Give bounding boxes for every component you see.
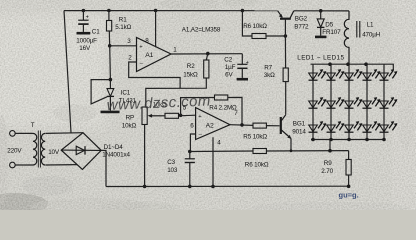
resistor R2 <box>146 54 209 107</box>
svg-text:R7: R7 <box>264 64 272 71</box>
capacitor C1 <box>76 9 100 52</box>
wire A2 pin 4 to ground <box>211 137 215 188</box>
svg-text:RP: RP <box>126 115 134 122</box>
wire A2 pin 6 <box>190 134 195 152</box>
op-amp A2 <box>183 105 239 147</box>
svg-text:R1: R1 <box>119 16 127 23</box>
wire A1 pin 8 to rail <box>154 9 158 48</box>
LED6 <box>309 97 327 108</box>
node cathode bus taps <box>311 138 386 142</box>
svg-text:D1~D4: D1~D4 <box>104 144 124 151</box>
op-amp A1 <box>127 38 177 72</box>
svg-text:gu=g.: gu=g. <box>339 191 359 200</box>
diode D5 FR107 <box>315 9 341 37</box>
wire ground rail <box>106 185 350 187</box>
wire LED column 2 <box>330 64 332 139</box>
terminal 220V bottom <box>10 162 16 168</box>
svg-text:220V: 220V <box>7 147 22 154</box>
LED12 <box>327 121 345 132</box>
capacitor C3 <box>167 152 195 189</box>
node R8 / BG2 base / R7 <box>284 34 288 38</box>
svg-text:FR107: FR107 <box>322 29 341 36</box>
resistor R3 <box>153 103 196 119</box>
wire LED column 3 <box>348 64 350 139</box>
svg-text:C1: C1 <box>92 29 100 36</box>
inductor L1 <box>344 11 380 64</box>
wire bridge output to ground rail <box>101 150 106 186</box>
wire A1 pin 2 feedback <box>129 62 180 88</box>
LED7 <box>327 97 345 108</box>
svg-text:1000µF: 1000µF <box>76 37 97 44</box>
svg-text:R5 10kΩ: R5 10kΩ <box>243 134 267 141</box>
node R1/TL431/pin3 junction <box>108 44 112 48</box>
svg-text:R6 10kΩ: R6 10kΩ <box>245 162 269 169</box>
svg-text:BG2: BG2 <box>295 16 308 23</box>
wire left vertical from rail to bridge <box>64 11 71 133</box>
node RP bottom on ground rail <box>143 185 147 189</box>
svg-text:15kΩ: 15kΩ <box>183 72 198 79</box>
transistor BG2 B772 <box>278 11 309 36</box>
svg-text:R4 2.2MΩ: R4 2.2MΩ <box>209 105 237 112</box>
LED2 <box>327 69 345 80</box>
wire cathode bus to sense line <box>328 140 332 153</box>
shunt reference IC1 TL431 <box>91 46 136 112</box>
wire top +V rail (left of BG2) <box>64 10 278 12</box>
resistor R6 (current sense feed) <box>190 149 349 169</box>
node pin6 / C3 / R6 sense <box>188 150 192 154</box>
wire LED column 1 <box>312 64 314 139</box>
svg-text:A2: A2 <box>206 122 214 129</box>
svg-text:+: + <box>86 14 89 20</box>
svg-text:B772: B772 <box>294 24 309 31</box>
svg-text:A1,A2=LM358: A1,A2=LM358 <box>182 27 221 34</box>
svg-text:2.70: 2.70 <box>321 168 333 175</box>
LED5 <box>380 69 398 80</box>
svg-text:LED1 ~ LED15: LED1 ~ LED15 <box>297 54 344 61</box>
node BG1 emitter on sense line <box>290 149 293 152</box>
svg-text:103: 103 <box>167 167 178 174</box>
wire secondary to bridge bottom <box>46 164 78 166</box>
wire LED anode bus <box>311 64 394 69</box>
wire LED column 4 <box>366 64 368 139</box>
terminal 220V top <box>10 131 16 137</box>
svg-text:L1: L1 <box>367 21 374 28</box>
wire LED column 5 <box>383 64 385 139</box>
svg-text:R6 10kΩ: R6 10kΩ <box>243 23 267 30</box>
LED9 <box>363 97 381 108</box>
LED3 <box>345 69 363 80</box>
wire secondary to bridge top <box>46 132 84 135</box>
svg-text:D5: D5 <box>325 21 333 28</box>
resistor R5 <box>230 123 280 141</box>
resistor R8 (labelled R6 10k) <box>241 9 286 39</box>
resistor R7 <box>264 36 289 115</box>
svg-text:9014: 9014 <box>292 129 306 136</box>
node anode bus taps <box>328 62 368 66</box>
capacitor C2 <box>224 54 248 79</box>
svg-text:+: + <box>246 60 249 66</box>
svg-text:470µH: 470µH <box>362 31 381 38</box>
svg-text:3kΩ: 3kΩ <box>264 72 275 79</box>
node A1 output / R2 <box>206 52 210 56</box>
resistor R9 <box>321 151 351 189</box>
resistor R4 <box>181 95 242 125</box>
node A2 pin5 / R4 junction <box>179 114 183 118</box>
bridge rectifier D1~D4 <box>61 133 130 170</box>
LED8 <box>345 97 363 108</box>
potentiometer RP <box>122 107 161 186</box>
wire top rail (right of BG2 to L1 corner) <box>294 10 349 12</box>
svg-text:T: T <box>31 122 35 129</box>
svg-text:10V: 10V <box>48 149 60 156</box>
LED11 <box>309 121 327 132</box>
svg-text:R9: R9 <box>324 160 332 167</box>
wire primary leads <box>15 133 33 165</box>
LED1 <box>309 69 327 80</box>
LED15 <box>380 121 398 132</box>
transistor BG1 9014 <box>281 115 307 151</box>
svg-text:BG1: BG1 <box>293 121 306 128</box>
svg-text:A1: A1 <box>145 52 153 59</box>
LED13 <box>345 121 363 132</box>
svg-text:6V: 6V <box>225 72 233 79</box>
LED10 <box>380 97 398 108</box>
svg-text:5.1kΩ: 5.1kΩ <box>115 24 131 31</box>
transformer T <box>7 122 60 167</box>
LED4 <box>363 69 381 80</box>
resistor R1 <box>107 9 132 46</box>
svg-text:C3: C3 <box>167 159 175 166</box>
svg-text:1µF: 1µF <box>225 64 236 71</box>
svg-text:10kΩ: 10kΩ <box>122 123 137 130</box>
svg-text:C2: C2 <box>224 56 232 63</box>
wire LED cathode bus <box>311 139 385 141</box>
svg-text:R2: R2 <box>187 63 195 70</box>
wire A1 output <box>171 53 242 55</box>
wire A1 pin 3 input <box>110 45 137 47</box>
svg-text:16V: 16V <box>79 45 91 52</box>
LED14 <box>363 121 381 132</box>
